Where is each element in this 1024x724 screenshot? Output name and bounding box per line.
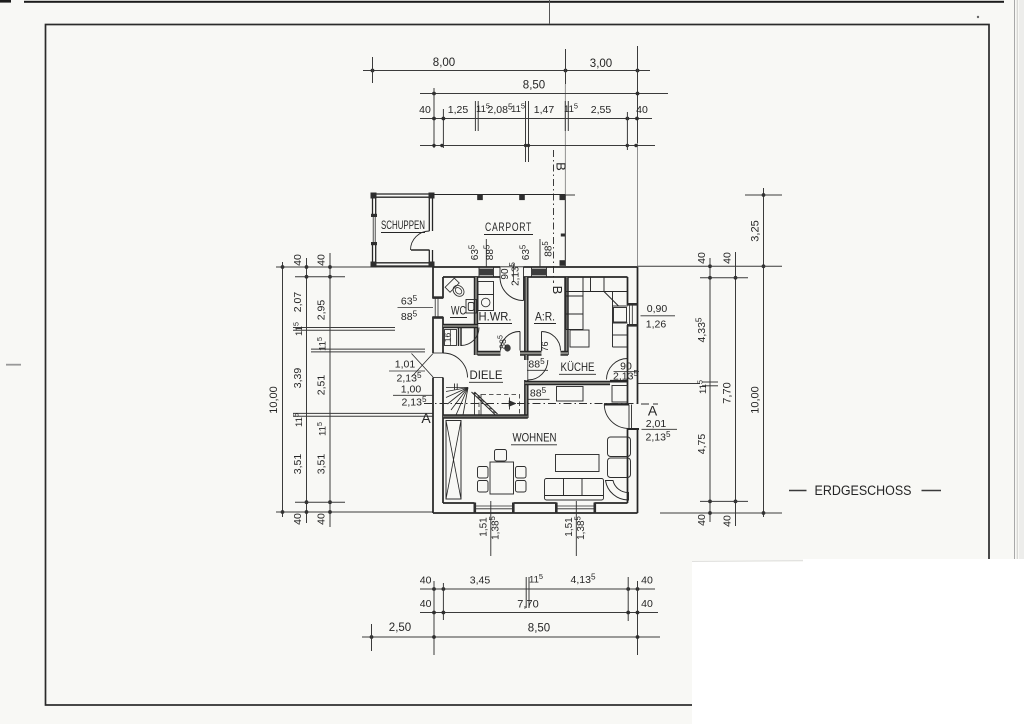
svg-text:40: 40: [419, 104, 431, 116]
svg-text:10,00: 10,00: [750, 386, 762, 414]
svg-text:H.WR.: H.WR.: [479, 310, 512, 324]
svg-text:40: 40: [641, 598, 653, 610]
svg-text:40: 40: [641, 575, 653, 587]
svg-text:40: 40: [722, 515, 734, 527]
svg-text:7,70: 7,70: [722, 382, 734, 403]
svg-text:3,39: 3,39: [292, 368, 304, 389]
svg-text:SCHUPPEN: SCHUPPEN: [381, 218, 425, 232]
svg-text:76: 76: [540, 341, 550, 351]
svg-text:3,45: 3,45: [470, 575, 491, 587]
svg-text:2,51: 2,51: [316, 375, 328, 396]
svg-text:B: B: [550, 286, 565, 295]
svg-text:2,50: 2,50: [389, 622, 411, 634]
svg-text:16: 16: [443, 333, 453, 343]
svg-text:1,00: 1,00: [401, 384, 422, 396]
svg-text:A:R.: A:R.: [535, 310, 555, 324]
svg-text:3,51: 3,51: [292, 454, 304, 475]
svg-text:7,70: 7,70: [517, 599, 538, 611]
svg-text:DIELE: DIELE: [470, 368, 503, 382]
svg-text:1,25: 1,25: [448, 104, 469, 116]
svg-text:2,95: 2,95: [316, 300, 328, 321]
svg-text:40: 40: [696, 514, 708, 526]
svg-text:A: A: [421, 410, 431, 426]
svg-text:1,26: 1,26: [646, 319, 667, 331]
svg-text:40: 40: [420, 575, 432, 587]
svg-text:B: B: [554, 162, 569, 171]
svg-text:40: 40: [696, 252, 708, 264]
svg-text:40: 40: [636, 104, 648, 116]
svg-text:2,55: 2,55: [591, 104, 612, 116]
svg-text:1,47: 1,47: [534, 104, 555, 116]
svg-text:40: 40: [420, 598, 432, 610]
svg-text:3,25: 3,25: [750, 220, 762, 241]
svg-text:KÜCHE: KÜCHE: [561, 360, 595, 374]
svg-text:8,50: 8,50: [523, 80, 545, 92]
svg-text:ERDGESCHOSS: ERDGESCHOSS: [815, 483, 912, 498]
svg-text:0,90: 0,90: [647, 303, 668, 315]
svg-text:WC: WC: [451, 304, 466, 318]
svg-text:8,50: 8,50: [528, 623, 550, 635]
svg-text:8,00: 8,00: [433, 57, 455, 69]
svg-text:WOHNEN: WOHNEN: [513, 431, 557, 445]
svg-text:40: 40: [292, 254, 304, 266]
svg-text:90: 90: [500, 268, 511, 280]
svg-text:3,00: 3,00: [590, 58, 612, 70]
svg-text:40: 40: [722, 252, 734, 264]
svg-text:2,01: 2,01: [646, 418, 667, 430]
svg-text:CARPORT: CARPORT: [485, 220, 532, 234]
svg-text:40: 40: [316, 513, 328, 525]
svg-text:3,51: 3,51: [316, 454, 328, 475]
svg-text:1,01: 1,01: [395, 359, 416, 371]
svg-text:10,00: 10,00: [268, 386, 280, 414]
svg-text:A: A: [648, 403, 658, 419]
svg-text:4,75: 4,75: [696, 434, 708, 455]
svg-text:40: 40: [292, 513, 304, 525]
svg-text:2,07: 2,07: [292, 292, 304, 313]
svg-text:40: 40: [316, 254, 328, 266]
